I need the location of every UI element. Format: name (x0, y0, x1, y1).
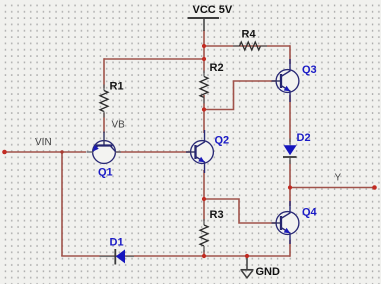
svg-text:VB: VB (112, 120, 126, 131)
node Y endpoint (372, 185, 377, 190)
wire R2 bottom to junction (203, 95, 205, 110)
power VCC symbol (188, 18, 220, 31)
wire R1 bottom to Q1 base (VB net) (103, 113, 105, 133)
node Q2 emitter junction (202, 197, 206, 201)
svg-text:Q2: Q2 (215, 135, 230, 147)
resistor R2 (200, 71, 208, 104)
resistor R1 (100, 85, 108, 118)
resistor R4 (233, 42, 267, 50)
wire Y output horizontal (290, 187, 375, 189)
node R3 ground junction (202, 254, 206, 258)
wire VIN horizontal net (5, 151, 87, 153)
svg-text:Y: Y (335, 172, 342, 183)
node Y junction (288, 185, 292, 189)
wire R4 to Q3 collector (289, 45, 291, 64)
wire Q1 collector to Q2 base (116, 151, 190, 153)
svg-text:R3: R3 (210, 209, 224, 221)
wire junction down to Q2 collector (203, 110, 205, 134)
node R4 branch junction (202, 44, 206, 48)
transistor Q4 (272, 201, 299, 244)
wire R4 branch horizontal (204, 45, 290, 47)
ground symbol GND (241, 256, 254, 278)
diode D2 (283, 139, 297, 165)
svg-text:GND: GND (256, 266, 281, 278)
node VIN endpoint (2, 150, 7, 155)
svg-text:R2: R2 (210, 62, 224, 74)
wire VIN branch down to D1 (61, 152, 63, 256)
diode D1 (100, 249, 135, 265)
wire Q4 emitter to ground (289, 240, 291, 257)
svg-text:R4: R4 (242, 28, 257, 40)
svg-text:VCC 5V: VCC 5V (193, 4, 233, 16)
wire R1 top vertical (103, 58, 105, 88)
wire D2 cathode to Y junction (289, 160, 291, 188)
wire junction to Q4 base step (204, 199, 278, 223)
wire R3 top (203, 199, 205, 221)
transistor Q2 (186, 130, 213, 173)
wire Q3 emitter to D2 (289, 95, 291, 142)
transistor Q1 (87, 132, 122, 164)
svg-text:Q1: Q1 (98, 167, 113, 179)
node GND junction (245, 254, 249, 258)
svg-text:Q4: Q4 (302, 207, 318, 219)
resistor R3 (200, 219, 208, 252)
svg-text:D1: D1 (110, 237, 124, 249)
svg-text:D2: D2 (297, 132, 311, 144)
wire ground net bottom run (61, 255, 290, 257)
wire Y junction to Q4 collector (289, 188, 291, 207)
svg-text:VIN: VIN (35, 137, 52, 148)
wire VCC column down through R2 to junction (203, 30, 205, 73)
wire junction to Q3 base step (204, 81, 278, 110)
node VIN/D1 junction (60, 150, 63, 153)
node Q2 collector junction (202, 107, 206, 111)
wire Q2 emitter down to junction (203, 170, 205, 199)
node R1/VCC junction (202, 57, 206, 61)
wire R1 top horizontal to VCC column (104, 58, 204, 60)
svg-text:Q3: Q3 (302, 64, 317, 76)
transistor Q3 (272, 59, 299, 102)
wire R3 bottom to ground (203, 250, 205, 256)
svg-text:R1: R1 (110, 81, 124, 93)
